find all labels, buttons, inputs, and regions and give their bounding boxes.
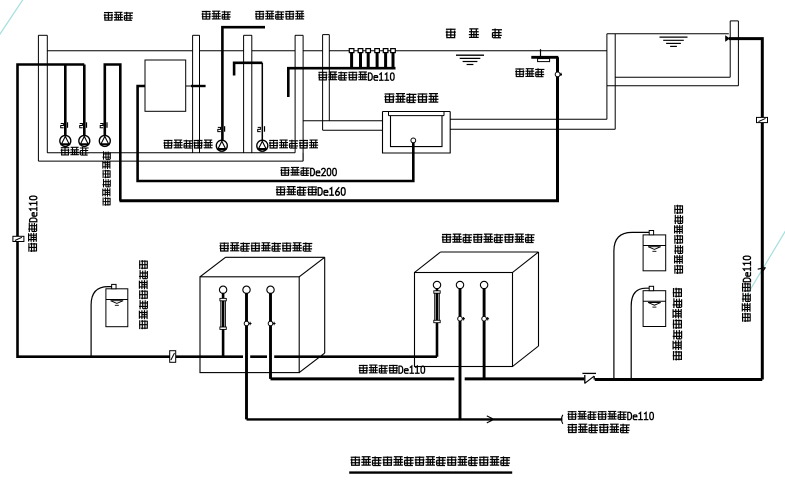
label purified out label [359,365,425,374]
tank water level symbol [660,37,688,46]
flocculant dosing pipe [91,287,112,357]
label rain pump label [269,140,318,149]
sewage pump mark [218,126,225,132]
pipe purified lift manifold [105,65,121,201]
label well label ShuiBengJing [104,12,133,21]
flocculant dosing tank [106,284,128,326]
pipe sewage discharge [222,27,265,140]
pit rim tick left [388,112,390,116]
aerator tick [540,49,542,58]
ground line [303,50,323,52]
wall pump-well left [38,35,47,161]
sewage lift pump [216,140,227,151]
pipe raw De200 [138,86,414,181]
lake water level symbol [456,55,484,64]
algaecide dosing pipe [631,288,649,379]
wall rain-well right [295,35,303,161]
purifier box right [415,252,539,367]
pipe feed segment 3 [274,355,437,358]
wells inner bottom [47,152,295,154]
pipe raw-water De110 left main [18,65,244,357]
label sewage pump label [164,140,213,149]
label purifier label right [442,234,535,243]
right box riser 2 backwash [456,281,465,419]
pit drain fitting [411,138,416,143]
rain pump mark [258,126,265,132]
raw water pump 1 [60,135,71,146]
nozzle 2 [358,49,363,68]
aerator bar [531,56,558,59]
pump1 riser [64,65,67,136]
construction line top-left [0,0,24,37]
pit rim tick right [443,112,445,116]
label rain return pipe label [318,72,394,81]
label flocculant label [139,260,148,329]
right box riser 3 outlet [480,281,489,379]
pump2 mark [80,122,87,128]
label raw De110 label [28,196,37,252]
pump3 mark [100,122,107,128]
pit rim outer [383,111,451,113]
pit outer walls [383,112,451,154]
aerator body [538,59,550,62]
label well label WuShuiJing [202,11,231,20]
title underline [349,471,512,473]
lake floor lower left [323,129,383,131]
ground line [47,50,192,52]
pipe feed segment 2 [250,355,267,358]
upper tank top [607,33,729,35]
pipe backwash drain [247,418,563,420]
construction line right [744,230,785,300]
label purifier label left [220,242,313,251]
nozzle 1 [349,49,354,68]
ground line [200,50,244,52]
drain end tick [562,415,563,424]
aerator union fitting [555,72,562,77]
right box riser 1 flow meter [433,281,440,356]
overflow line thin [186,85,199,87]
pipe purified out right [595,378,763,381]
drain arrow mid [487,416,494,423]
pump2 riser [83,65,86,136]
nozzle 5 [383,49,388,68]
label right riser label [742,256,751,322]
upper tank right wall [730,21,738,86]
wall lake left [323,35,330,131]
pump1 mark [61,122,68,128]
rain lift pump [257,140,268,151]
rain pump riser [261,63,263,141]
upper tank left wall [607,34,615,130]
purifier box left [200,257,325,372]
label well label YuShuiHuiShuiJing [255,11,304,20]
pipe rain-pump elbow [234,63,262,76]
upper tank outer bottom [607,85,739,87]
microbe dosing pipe [614,232,649,379]
label purified De160 label [276,186,345,195]
wall sewage/rain divider [244,35,252,153]
label purified lift pump label [103,151,111,206]
pit rim inner [389,115,445,117]
left box riser 1 flow meter [219,286,226,357]
float inlet marker [725,35,730,42]
valve on left raw pipe [13,236,24,241]
upper tank inner bottom [615,76,730,78]
ground line [329,50,607,52]
pipe purified De160 [120,57,558,201]
pipe purified out left [271,377,455,380]
nozzle 3 [366,49,371,68]
pit inner walls [391,116,443,147]
nozzle 6 [391,49,396,68]
purified lift pump [99,135,110,146]
label backwash label [568,411,654,420]
pipe purified De110 right riser [729,39,762,380]
leader arrow [758,268,766,274]
valve on right riser [757,117,768,122]
wells outer bottom [38,160,303,162]
receiving tank [145,60,186,111]
lake floor upper left [303,120,382,122]
overflow line thick [191,85,206,87]
raw water pump 2 [79,135,90,146]
pipe rain return De110 [288,68,395,97]
label algaecide label [673,288,682,361]
label raw pump label [61,147,89,156]
ground line [252,50,295,52]
algaecide dosing tank [643,286,666,326]
step W4 [302,153,304,161]
lake floor upper right [450,118,607,120]
label title [351,456,511,465]
nozzle 4 [375,49,380,68]
label aeration label [515,68,544,77]
left box riser 3 outlet [267,286,276,379]
lake floor lower right [450,128,615,130]
label pit label [384,93,438,103]
left box riser 2 backwash [243,286,252,419]
wall pump/sewage divider [193,35,200,153]
label microbe label [674,205,683,274]
microbe dosing tank [643,231,666,271]
label raw De200 label [280,167,336,176]
check valve [582,373,596,383]
label lake label JingGuanHu [446,29,502,39]
pipe purified out mid [465,377,585,380]
label to sewer label [568,424,630,433]
valve on feed line [170,351,176,363]
